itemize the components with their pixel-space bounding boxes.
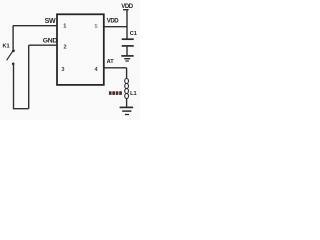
svg-text:3: 3 [61, 67, 64, 73]
svg-text:2: 2 [63, 45, 66, 51]
svg-text:GND: GND [43, 37, 58, 44]
svg-text:L1: L1 [130, 91, 137, 97]
svg-text:SW: SW [45, 18, 56, 25]
svg-text:5: 5 [95, 24, 98, 30]
svg-text:K1: K1 [3, 44, 10, 50]
svg-text:1: 1 [63, 23, 66, 29]
svg-text:VDD: VDD [121, 4, 133, 10]
svg-text:C1: C1 [130, 31, 137, 37]
svg-text:VDD: VDD [107, 18, 119, 24]
svg-text:AT: AT [107, 59, 115, 65]
